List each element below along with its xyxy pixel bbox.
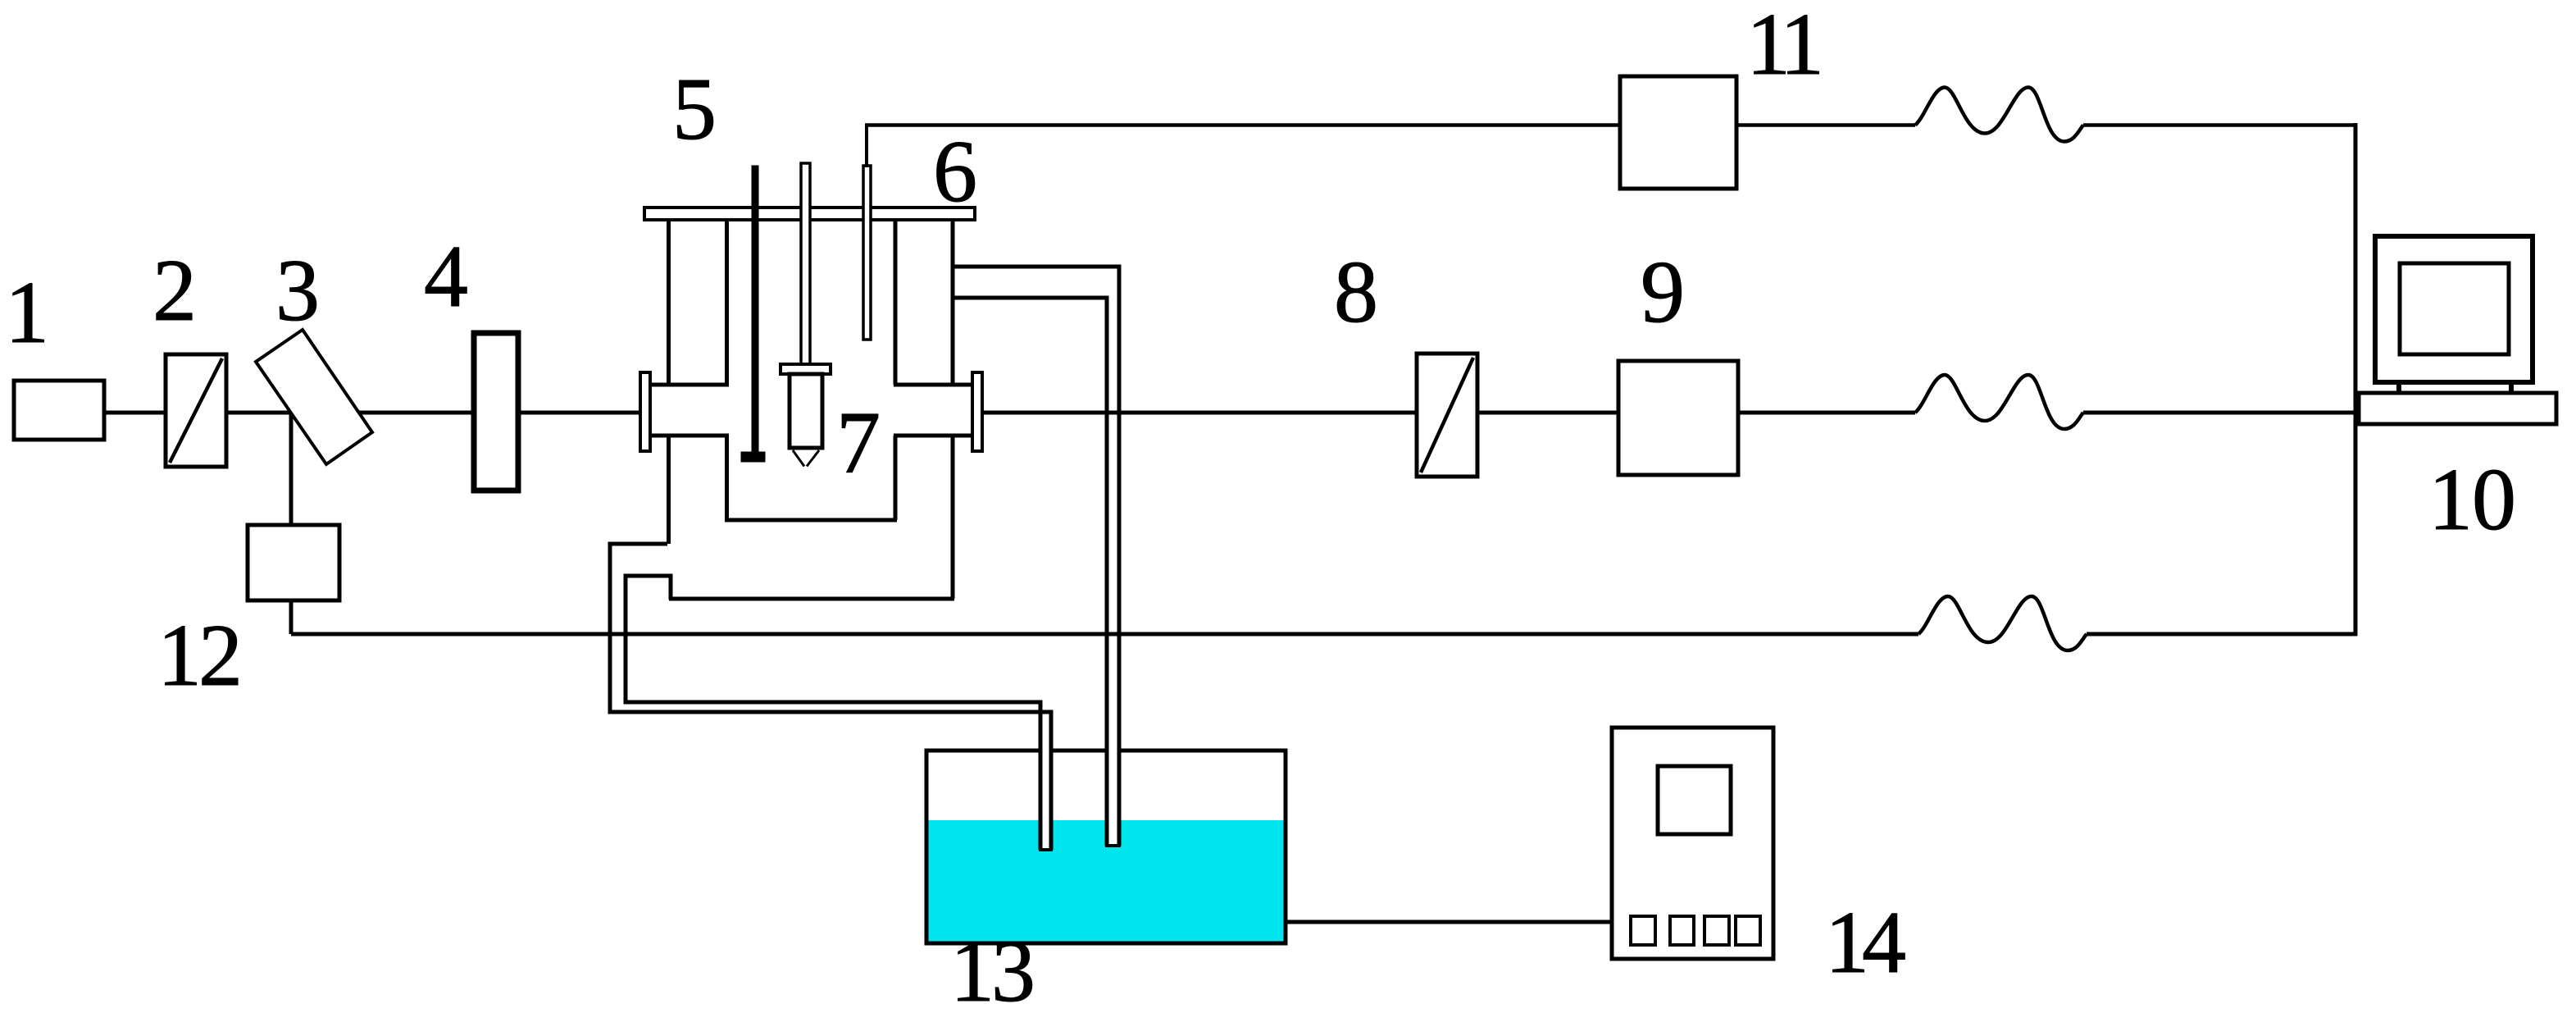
- svg-text:1: 1: [5, 264, 49, 362]
- svg-text:1: 1: [950, 923, 994, 1013]
- svg-text:6: 6: [933, 123, 977, 221]
- svg-text:9: 9: [1641, 244, 1685, 341]
- svg-text:0: 0: [2472, 451, 2516, 549]
- svg-text:3: 3: [275, 242, 320, 340]
- svg-text:1: 1: [2428, 451, 2473, 549]
- svg-text:7: 7: [836, 395, 881, 492]
- svg-text:2: 2: [152, 242, 197, 340]
- svg-text:1: 1: [1780, 0, 1824, 94]
- svg-text:8: 8: [1334, 244, 1378, 341]
- svg-text:2: 2: [198, 607, 243, 705]
- svg-text:5: 5: [672, 61, 717, 158]
- svg-text:3: 3: [991, 923, 1035, 1013]
- svg-text:4: 4: [424, 228, 468, 326]
- svg-text:1: 1: [157, 607, 202, 705]
- svg-text:4: 4: [1862, 894, 1906, 992]
